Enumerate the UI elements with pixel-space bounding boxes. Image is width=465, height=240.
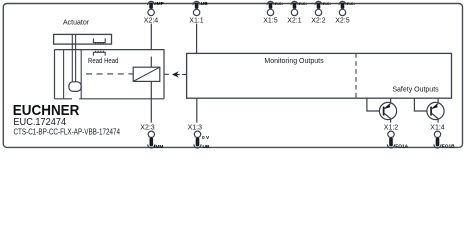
monitoring/safety outputs box — [187, 53, 452, 98]
svg-text:IMM: IMM — [154, 144, 163, 150]
wire X1:1 to monitoring box — [196, 24, 198, 54]
terminal X2:4 (IMP) — [148, 1, 155, 15]
housing slot wall right — [80, 50, 82, 99]
read head housing — [55, 50, 165, 99]
svg-text:X1:5: X1:5 — [263, 17, 278, 24]
wire module to X2:3 — [150, 81, 152, 122]
transistor Q1 — [379, 102, 396, 119]
svg-text:X2:3: X2:3 — [140, 124, 155, 131]
actuator body — [54, 34, 112, 44]
actuator bolt (double bar) — [71, 34, 73, 82]
coupling module (box with diagonal) — [133, 67, 160, 81]
svg-text:X2:4: X2:4 — [144, 17, 159, 24]
svg-text:X1:2: X1:2 — [384, 124, 399, 131]
signal arrow read head to box — [164, 73, 169, 75]
wire X2:4 to read head — [150, 24, 152, 50]
wire box to X1:3 — [196, 98, 198, 122]
svg-text:X1:4: X1:4 — [430, 124, 445, 131]
svg-text:FO1A: FO1A — [395, 143, 408, 149]
svg-text:0 V: 0 V — [202, 135, 210, 141]
housing slot wall left — [63, 50, 65, 99]
dashed coupling line — [86, 73, 133, 75]
svg-text:X1:3: X1:3 — [188, 124, 203, 131]
terminal X1:5 (n.c.) — [267, 1, 274, 15]
wire Q2 to X1:4 — [437, 119, 439, 123]
terminal X2:1 (n.c.) — [291, 1, 298, 15]
transistor Q2 wires — [414, 98, 427, 111]
actuator coil — [93, 38, 105, 44]
dashed divider — [355, 53, 357, 98]
transponder ball — [69, 82, 81, 92]
svg-text:X2:2: X2:2 — [311, 17, 326, 24]
svg-text:Safety Outputs: Safety Outputs — [392, 87, 439, 94]
transistor Q1 wires — [367, 98, 380, 111]
svg-text:X2:1: X2:1 — [287, 17, 302, 24]
svg-text:FO1B: FO1B — [442, 143, 455, 149]
svg-text:n.c.: n.c. — [323, 2, 331, 7]
svg-text:UB: UB — [201, 1, 208, 7]
svg-text:CTS-C1-BP-CC-FLX-AP-VBB-172474: CTS-C1-BP-CC-FLX-AP-VBB-172474 — [14, 127, 121, 136]
svg-text:n.c.: n.c. — [299, 2, 307, 7]
terminal X2:2 (n.c.) — [315, 1, 322, 15]
terminal X1:1 (UB) — [193, 1, 200, 15]
wire read head to coupling module — [150, 57, 152, 68]
read head coil — [93, 51, 105, 56]
svg-text:X1:1: X1:1 — [189, 17, 204, 24]
svg-text:Actuator: Actuator — [63, 20, 90, 27]
svg-text:n.c.: n.c. — [275, 2, 283, 7]
svg-text:Read Head: Read Head — [88, 58, 119, 65]
wire Q1 to X1:2 — [390, 119, 392, 123]
svg-text:Monitoring Outputs: Monitoring Outputs — [264, 58, 324, 65]
svg-text:IMP: IMP — [155, 1, 164, 7]
svg-text:n.c.: n.c. — [347, 2, 355, 7]
terminal X2:5 (n.c.) — [339, 1, 346, 15]
transistor Q2 — [427, 102, 444, 119]
svg-text:X2:5: X2:5 — [335, 17, 350, 24]
svg-text:UB: UB — [203, 144, 210, 150]
